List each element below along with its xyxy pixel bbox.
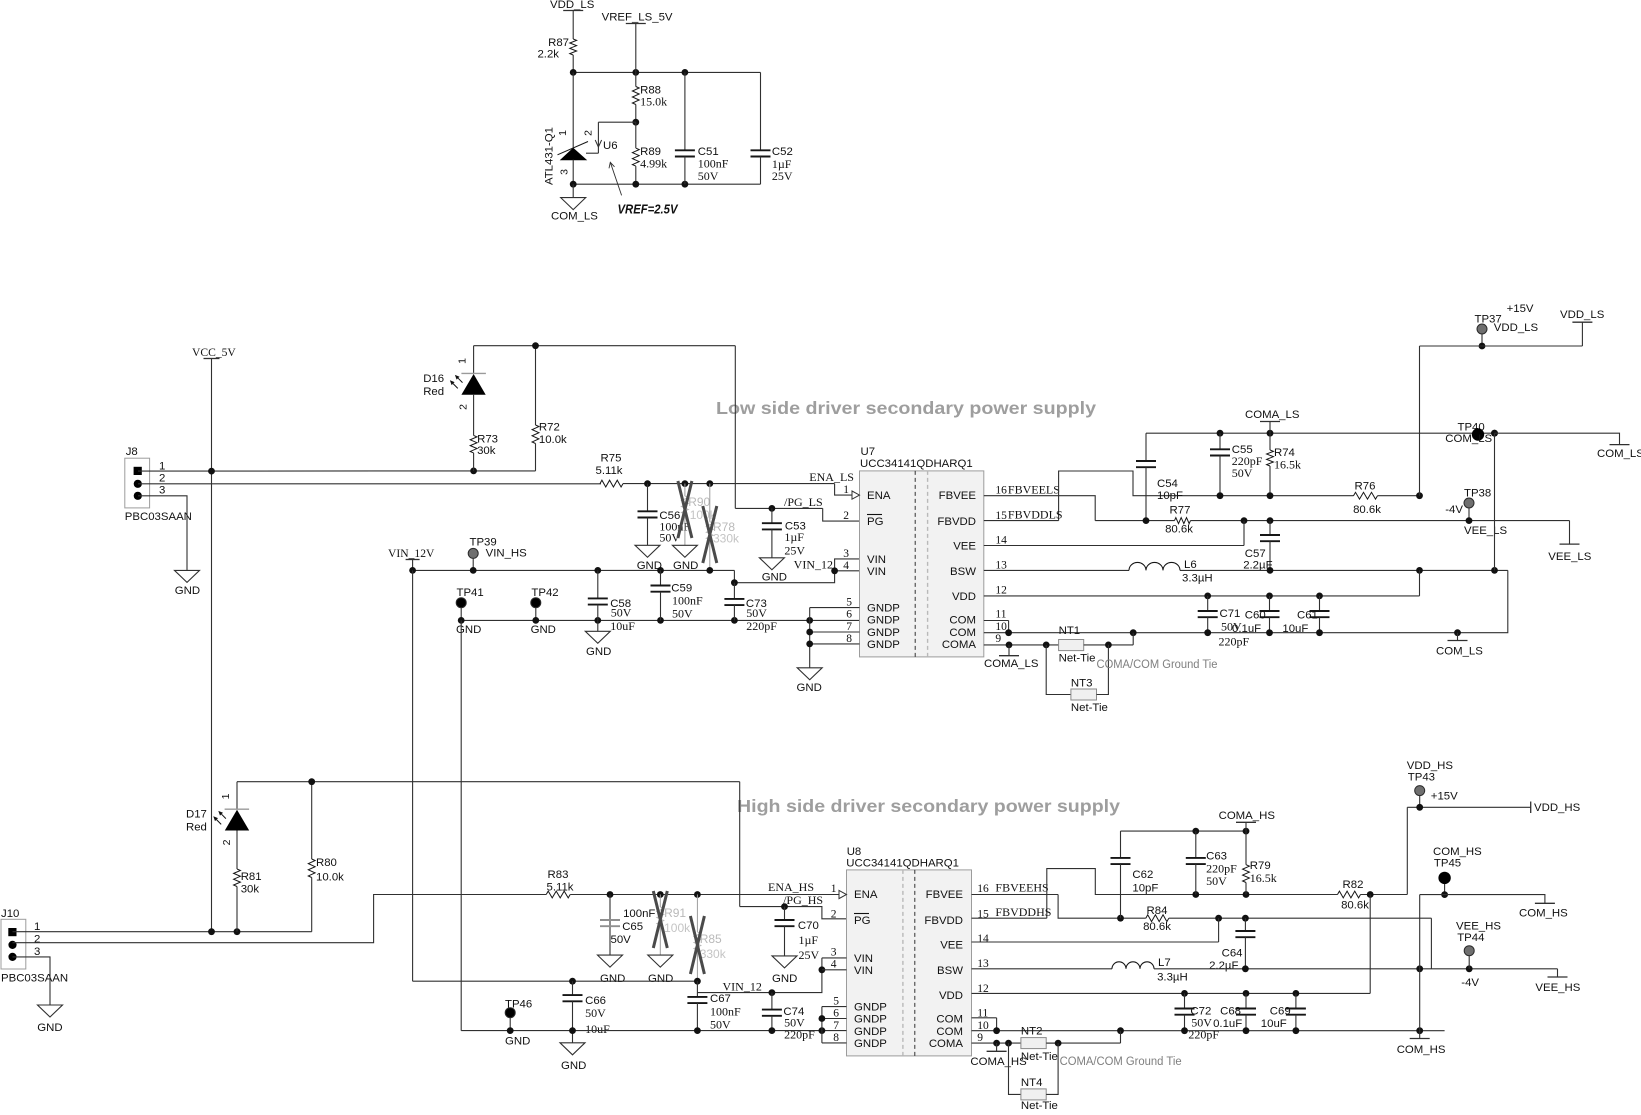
svg-text:7: 7 xyxy=(846,621,852,633)
svg-text:C68: C68 xyxy=(1220,1006,1241,1018)
svg-text:50V: 50V xyxy=(710,1018,731,1032)
svg-text:R72: R72 xyxy=(539,422,560,434)
testpoint TP38 -4V VEE_LS xyxy=(1445,488,1507,537)
wire COM vertical TP40 to BSW rail xyxy=(1494,433,1496,570)
ground GND (C58) xyxy=(585,620,611,658)
svg-text:COMA/COM Ground Tie: COMA/COM Ground Tie xyxy=(1097,657,1218,671)
wire J10 pin1 (VCC_5V) xyxy=(13,928,312,935)
svg-text:100nF: 100nF xyxy=(710,1005,741,1019)
resistor R80 xyxy=(308,782,344,932)
capacitor C58 xyxy=(588,570,635,632)
svg-text:COM: COM xyxy=(936,1026,963,1038)
svg-text:4.99k: 4.99k xyxy=(640,157,667,171)
svg-text:2: 2 xyxy=(843,510,849,522)
svg-text:-4V: -4V xyxy=(1461,977,1479,989)
svg-text:VEE_LS: VEE_LS xyxy=(1464,525,1507,537)
wire ENA_HS junctions xyxy=(607,891,701,898)
svg-text:C67: C67 xyxy=(710,993,731,1005)
svg-text:C65: C65 xyxy=(622,921,643,933)
svg-text:Red: Red xyxy=(186,822,207,834)
power flag COMA_HS (top) xyxy=(1219,810,1276,831)
capacitor C70 xyxy=(775,907,820,962)
svg-text:Net-Tie: Net-Tie xyxy=(1021,1100,1058,1110)
wire VCC_5V vertical to J10 xyxy=(211,471,213,932)
svg-text:1: 1 xyxy=(220,793,232,799)
capacitor C57 xyxy=(1243,521,1280,572)
svg-text:2: 2 xyxy=(159,472,165,484)
wire FBVDD rail junctions xyxy=(1217,492,1274,499)
svg-text:3: 3 xyxy=(34,946,40,958)
wire FBVEELS pin16 with jog xyxy=(984,496,1095,521)
svg-text:VIN: VIN xyxy=(867,566,886,578)
power flag VDD_LS (top) xyxy=(550,0,595,39)
svg-text:TP41: TP41 xyxy=(457,587,484,599)
svg-text:6: 6 xyxy=(833,1008,839,1020)
svg-text:3: 3 xyxy=(559,169,571,175)
wire VIN_12V rail (LS) xyxy=(409,559,859,586)
svg-text:+15V: +15V xyxy=(1507,303,1534,315)
svg-text:16.5k: 16.5k xyxy=(1250,871,1277,885)
svg-text:NT2: NT2 xyxy=(1021,1026,1043,1038)
svg-text:Net-Tie: Net-Tie xyxy=(1059,653,1096,665)
resistor R85 330k (DNP crossed out) xyxy=(690,895,726,982)
svg-text:COMA_HS: COMA_HS xyxy=(1219,810,1276,822)
svg-text:3: 3 xyxy=(831,947,837,959)
svg-text:GNDP: GNDP xyxy=(867,627,900,639)
ground GND (R91) xyxy=(648,955,674,985)
wire COMA pin9 xyxy=(984,642,1059,649)
svg-text:16: 16 xyxy=(995,485,1007,497)
wire VDD rail (HS) xyxy=(972,895,1371,997)
wire VDD_LS vertical xyxy=(1419,346,1421,496)
net tie NT4 xyxy=(1009,1043,1059,1112)
wire U7 GNDP pins to GND xyxy=(806,608,859,668)
wire VDD rail (LS) xyxy=(984,593,1420,600)
svg-text:COM_HS: COM_HS xyxy=(1397,1044,1446,1056)
inductor L6 xyxy=(984,559,1508,585)
svg-text:GND: GND xyxy=(456,624,481,636)
ground GND (C53) xyxy=(759,558,787,584)
capacitor C62 xyxy=(1111,831,1159,918)
svg-text:C61: C61 xyxy=(1297,610,1318,622)
svg-text:COM_LS: COM_LS xyxy=(551,211,598,223)
svg-text:220pF: 220pF xyxy=(1219,635,1250,649)
capacitor C64 xyxy=(1209,918,1255,972)
svg-text:80.6k: 80.6k xyxy=(1353,504,1381,516)
wire TP40 to COM_LS flag (right) xyxy=(1495,433,1620,444)
svg-text:GND: GND xyxy=(37,1022,62,1034)
capacitor C67 xyxy=(687,993,741,1032)
wire COMA_LS top rail xyxy=(1146,430,1498,437)
svg-text:R90: R90 xyxy=(688,495,710,509)
svg-text:3.3µH: 3.3µH xyxy=(1182,573,1213,585)
svg-text:330k: 330k xyxy=(713,532,740,546)
capacitor C55 xyxy=(1210,433,1263,496)
svg-text:10pF: 10pF xyxy=(1157,490,1183,502)
wire VIN rail (HS) xyxy=(413,978,701,997)
svg-text:ENA: ENA xyxy=(854,889,878,901)
svg-text:10.0k: 10.0k xyxy=(539,434,567,446)
svg-text:R76: R76 xyxy=(1355,481,1376,493)
ground GND (J8) xyxy=(175,570,201,597)
svg-text:C70: C70 xyxy=(798,920,819,932)
wire VEE pin14 riser xyxy=(984,521,1244,546)
svg-text:1µF: 1µF xyxy=(799,933,819,947)
svg-text:FBVDDLS: FBVDDLS xyxy=(1008,508,1063,522)
resistor R74 xyxy=(1267,433,1301,496)
wire GND rail (LS) xyxy=(458,617,860,624)
wire GND rail (HS) xyxy=(461,1027,846,1034)
svg-text:5: 5 xyxy=(846,597,852,609)
svg-text:GND: GND xyxy=(648,973,673,985)
svg-text:50V: 50V xyxy=(1232,466,1253,480)
svg-text:VEE_HS: VEE_HS xyxy=(1535,982,1580,994)
svg-text:VIN: VIN xyxy=(854,965,873,977)
wire TP41 vertical to HS section xyxy=(460,620,462,1030)
svg-text:50V: 50V xyxy=(611,934,632,946)
svg-text:C59: C59 xyxy=(671,582,692,594)
power flag VDD_HS (right) xyxy=(1531,802,1581,815)
svg-text:GND: GND xyxy=(175,585,200,597)
svg-text:ENA: ENA xyxy=(867,490,891,502)
svg-text:FBVEEHS: FBVEEHS xyxy=(995,881,1048,895)
svg-text:UCC34141QDHARQ1: UCC34141QDHARQ1 xyxy=(846,857,959,869)
resistor R72 xyxy=(532,346,567,471)
net tie NT3 xyxy=(1046,645,1108,714)
svg-text:R84: R84 xyxy=(1147,905,1168,917)
svg-text:9: 9 xyxy=(977,1032,983,1044)
power flag COMA_HS (pin9) xyxy=(970,1043,1027,1068)
testpoint TP37 +15V VDD_LS xyxy=(1475,303,1539,349)
svg-text:10uF: 10uF xyxy=(1261,1018,1287,1030)
svg-text:2: 2 xyxy=(34,933,40,945)
ground GND (J10) xyxy=(37,1005,62,1034)
capacitor C72 xyxy=(1175,993,1220,1041)
svg-text:GND: GND xyxy=(600,973,625,985)
svg-text:25V: 25V xyxy=(772,169,793,183)
svg-text:16.5k: 16.5k xyxy=(1274,458,1301,472)
wire J8 pin3 to GND xyxy=(138,496,187,571)
wire U8 GNDP pins riser xyxy=(819,1007,847,1043)
svg-text:COM: COM xyxy=(936,1014,963,1026)
wire FBVDDLS pin15 up-and-over xyxy=(984,471,1354,521)
svg-text:80.6k: 80.6k xyxy=(1165,524,1193,536)
svg-text:VEE_HS: VEE_HS xyxy=(1456,921,1501,933)
resistor R81 xyxy=(234,869,262,932)
svg-text:COM_LS: COM_LS xyxy=(1445,433,1492,445)
testpoint TP41 xyxy=(456,587,484,636)
svg-text:9: 9 xyxy=(995,633,1001,645)
svg-text:COM_LS: COM_LS xyxy=(1436,646,1483,658)
svg-text:FBVDD: FBVDD xyxy=(937,516,976,528)
svg-text:VIN: VIN xyxy=(867,554,886,566)
svg-text:PBC03SAAN: PBC03SAAN xyxy=(125,511,192,523)
svg-text:GND: GND xyxy=(772,973,797,985)
capacitor C68 xyxy=(1213,993,1256,1030)
svg-text:VDD_LS: VDD_LS xyxy=(1494,322,1539,334)
svg-text:+15V: +15V xyxy=(1431,791,1458,803)
power flag COM_HS (right) xyxy=(1519,903,1568,919)
svg-text:2: 2 xyxy=(583,130,595,136)
svg-text:VIN: VIN xyxy=(854,953,873,965)
svg-text:R87: R87 xyxy=(548,37,569,49)
svg-text:NT1: NT1 xyxy=(1059,625,1081,637)
svg-text:11: 11 xyxy=(995,609,1006,621)
resistor R73 xyxy=(470,433,498,471)
svg-text:R85: R85 xyxy=(700,932,722,946)
svg-text:VDD: VDD xyxy=(952,591,976,603)
power flag COMA_LS (top) xyxy=(1245,409,1300,433)
svg-text:10.0k: 10.0k xyxy=(316,872,344,884)
testpoint TP45 COM_HS xyxy=(1433,846,1482,898)
svg-text:50V: 50V xyxy=(698,169,719,183)
svg-text:D17: D17 xyxy=(186,808,207,820)
svg-text:VREF_LS_5V: VREF_LS_5V xyxy=(602,12,673,24)
svg-text:VIN_12: VIN_12 xyxy=(794,558,833,572)
svg-text:L7: L7 xyxy=(1158,957,1171,969)
svg-text:GND: GND xyxy=(561,1060,586,1072)
svg-text:80.6k: 80.6k xyxy=(1143,921,1171,933)
svg-text:GND: GND xyxy=(586,646,611,658)
svg-text:FBVDDHS: FBVDDHS xyxy=(995,905,1051,919)
wire VREF bottom rail xyxy=(570,181,761,188)
svg-text:J8: J8 xyxy=(126,446,138,458)
svg-text:16: 16 xyxy=(977,883,989,895)
wire VEE_LS line with TP38 xyxy=(1241,517,1570,544)
svg-text:FBVEE: FBVEE xyxy=(939,490,977,502)
svg-text:Net-Tie: Net-Tie xyxy=(1021,1051,1058,1063)
svg-text:1: 1 xyxy=(831,883,837,895)
svg-text:U7: U7 xyxy=(861,446,876,458)
svg-text:GNDP: GNDP xyxy=(854,1014,887,1026)
svg-text:L6: L6 xyxy=(1184,559,1197,571)
capacitor C51 xyxy=(675,72,729,184)
svg-text:GNDP: GNDP xyxy=(867,603,900,615)
capacitor C60 xyxy=(1232,596,1280,635)
svg-text:GNDP: GNDP xyxy=(867,615,900,627)
resistor R79 xyxy=(1243,831,1277,894)
testpoint TP46 xyxy=(505,999,532,1048)
wire VDD rail to flag xyxy=(1420,322,1583,346)
power flag COM_LS (bottom rail) xyxy=(1436,633,1483,658)
svg-text:High side driver secondary pow: High side driver secondary power supply xyxy=(737,796,1120,816)
wire BSW rail corner to COM rail xyxy=(1458,570,1508,632)
svg-text:GNDP: GNDP xyxy=(854,1038,887,1050)
svg-text:10pF: 10pF xyxy=(1132,883,1158,895)
wire FBVDDHS pin15 up-and-over xyxy=(972,869,1338,919)
resistor R75 xyxy=(595,453,834,488)
wire VIN_12V vertical to HS section xyxy=(412,570,414,981)
svg-text:R91: R91 xyxy=(664,906,686,920)
ground GND (C66) xyxy=(560,1031,586,1072)
wire TP45 line to COM_HS flag xyxy=(1420,895,1545,904)
resistor R90 100k (DNP crossed out) xyxy=(678,481,717,545)
svg-text:GNDP: GNDP xyxy=(854,1026,887,1038)
svg-text:GND: GND xyxy=(797,682,822,694)
capacitor C52 xyxy=(751,72,793,184)
resistor R77 xyxy=(1095,505,1469,536)
svg-text:50V: 50V xyxy=(1206,874,1227,888)
wire /PG_LS into U7 pin2 xyxy=(735,505,859,521)
svg-text:220pF: 220pF xyxy=(784,1028,815,1042)
svg-text:COM: COM xyxy=(949,627,976,639)
svg-text:5: 5 xyxy=(833,996,839,1008)
wire D17 anode rail to PG pulldown (HS) xyxy=(237,778,740,906)
resistor R82 xyxy=(1338,879,1408,912)
svg-text:FBVDD: FBVDD xyxy=(924,915,963,927)
svg-text:25V: 25V xyxy=(784,544,805,558)
svg-text:3: 3 xyxy=(159,485,165,497)
svg-text:D16: D16 xyxy=(423,373,444,385)
svg-text:C57: C57 xyxy=(1245,548,1266,560)
svg-text:50V: 50V xyxy=(585,1006,606,1020)
connector J8 PBC03SAAN xyxy=(125,446,192,523)
svg-text:1: 1 xyxy=(557,130,569,136)
net tie NT2 xyxy=(1021,1026,1121,1064)
svg-text:ENA_LS: ENA_LS xyxy=(809,470,854,484)
svg-text:15.0k: 15.0k xyxy=(640,95,667,109)
shunt reference U6 ATL431-Q1 xyxy=(544,72,618,185)
svg-text:GND: GND xyxy=(531,624,556,636)
svg-text:220pF: 220pF xyxy=(746,619,777,633)
svg-text:VEE: VEE xyxy=(953,541,976,553)
svg-text:12: 12 xyxy=(995,585,1007,597)
wire VEE pin14 riser (HS) xyxy=(972,918,1219,942)
svg-text:50V: 50V xyxy=(672,607,693,621)
svg-text:BSW: BSW xyxy=(937,965,963,977)
capacitor C69 xyxy=(1261,993,1306,1030)
resistor R78 330k (DNP crossed out) xyxy=(703,484,740,571)
svg-text:U6: U6 xyxy=(603,140,618,152)
net tie NT1 xyxy=(1059,625,1134,665)
node REF (R88/R89 junction to U6 pin2) xyxy=(586,119,639,153)
svg-text:J10: J10 xyxy=(1,908,19,920)
IC U7 UCC34141QDHARQ1 xyxy=(843,446,1007,657)
svg-text:4: 4 xyxy=(843,560,849,572)
capacitor C56 xyxy=(638,484,691,546)
svg-text:10uF: 10uF xyxy=(610,619,635,633)
resistor R76 xyxy=(1353,481,1423,516)
resistor R83 xyxy=(546,869,846,898)
svg-text:50V: 50V xyxy=(611,606,632,620)
capacitor C74 xyxy=(762,993,815,1042)
svg-text:13: 13 xyxy=(995,560,1007,572)
svg-text:1µF: 1µF xyxy=(784,530,804,544)
wire ENA_LS into U7 pin1 xyxy=(644,480,852,495)
resistor R91 100k (DNP crossed out) xyxy=(653,891,691,955)
svg-text:R75: R75 xyxy=(601,453,622,465)
capacitor C63 xyxy=(1186,831,1237,894)
resistor R87 xyxy=(537,37,576,61)
power flag VEE_LS (right) xyxy=(1548,544,1591,563)
svg-text:VCC_5V: VCC_5V xyxy=(192,346,236,359)
svg-text:VREF=2.5V: VREF=2.5V xyxy=(618,203,679,217)
svg-text:13: 13 xyxy=(977,958,989,970)
wire J10 pin2 to R83 xyxy=(13,895,547,943)
capacitor C73 xyxy=(724,583,777,633)
testpoint TP42 xyxy=(531,587,559,636)
power flag COM_LS (right edge) xyxy=(1597,445,1641,460)
svg-text:UCC34141QDHARQ1: UCC34141QDHARQ1 xyxy=(860,458,973,470)
wire COM rail (HS) xyxy=(972,1018,1445,1034)
svg-text:Net-Tie: Net-Tie xyxy=(1071,702,1108,714)
ground COM_LS (VREF) xyxy=(551,184,598,222)
svg-text:FBVEELS: FBVEELS xyxy=(1008,483,1060,497)
svg-text:2.2µF: 2.2µF xyxy=(1209,960,1238,972)
testpoint TP43 +15V VDD_HS xyxy=(1407,760,1458,811)
wire COMA_HS top rail xyxy=(1121,828,1250,835)
svg-text:C62: C62 xyxy=(1132,869,1153,881)
svg-text:ATL431-Q1: ATL431-Q1 xyxy=(544,127,556,185)
ground GND (C65) xyxy=(598,955,626,985)
svg-text:3: 3 xyxy=(843,548,849,560)
svg-text:C71: C71 xyxy=(1220,608,1241,620)
resistor R88 xyxy=(632,72,667,122)
svg-text:VDD_LS: VDD_LS xyxy=(1560,309,1605,321)
note VREF=2.5V with leader arrow xyxy=(609,162,679,216)
svg-text:COM: COM xyxy=(949,615,976,627)
svg-text:COMA_LS: COMA_LS xyxy=(984,658,1039,670)
svg-text:TP44: TP44 xyxy=(1457,932,1484,944)
svg-text:VDD_LS: VDD_LS xyxy=(550,0,595,11)
svg-text:30k: 30k xyxy=(241,884,260,896)
svg-text:TP42: TP42 xyxy=(531,587,558,599)
svg-text:R81: R81 xyxy=(241,871,262,883)
inductor L7 xyxy=(972,957,1558,984)
power flag VCC_5V xyxy=(192,346,236,471)
svg-text:R77: R77 xyxy=(1170,505,1191,517)
wire riser VDD rail to BSW rail xyxy=(1419,570,1421,596)
svg-text:330k: 330k xyxy=(700,947,727,961)
wire FBVEE drop to VEE_HS line xyxy=(1430,918,1432,969)
svg-text:U8: U8 xyxy=(847,846,862,858)
wire /PG_HS into U8 pin2 xyxy=(740,903,847,919)
power flag VIN_12V xyxy=(388,547,435,570)
svg-text:VIN_HS: VIN_HS xyxy=(486,547,528,559)
svg-text:5.11k: 5.11k xyxy=(546,882,573,894)
svg-text:0.1uF: 0.1uF xyxy=(1213,1018,1242,1030)
svg-text:4: 4 xyxy=(831,959,837,971)
svg-text:NT3: NT3 xyxy=(1071,677,1093,689)
capacitor C53 xyxy=(762,508,806,557)
svg-text:2: 2 xyxy=(831,909,837,921)
svg-text:NT4: NT4 xyxy=(1021,1077,1043,1089)
svg-text:8: 8 xyxy=(846,633,852,645)
power flag VEE_HS (right) xyxy=(1535,969,1580,994)
svg-text:COMA: COMA xyxy=(929,1038,964,1050)
svg-text:COM_LS: COM_LS xyxy=(1597,448,1641,460)
svg-text:80.6k: 80.6k xyxy=(1341,900,1369,912)
svg-text:VIN_12: VIN_12 xyxy=(723,979,762,993)
power flag COM_HS (bottom) xyxy=(1397,1031,1446,1056)
svg-text:5.11k: 5.11k xyxy=(595,465,622,477)
svg-text:1: 1 xyxy=(843,484,849,496)
wire COMA pin9 (HS) xyxy=(972,1040,1059,1047)
svg-text:BSW: BSW xyxy=(950,566,976,578)
svg-text:C69: C69 xyxy=(1270,1006,1291,1018)
svg-text:VIN_12V: VIN_12V xyxy=(388,547,435,560)
svg-text:C60: C60 xyxy=(1245,610,1266,622)
wire J10 pin3 to GND xyxy=(13,957,51,1005)
power flag VREF_LS_5V xyxy=(602,12,673,73)
ground GND (U7 GNDP) xyxy=(797,668,823,694)
connector J10 PBC03SAAN xyxy=(1,908,68,985)
svg-text:C64: C64 xyxy=(1222,948,1243,960)
wire FBVEEHS pin16 with jog xyxy=(972,895,1146,922)
svg-text:10uF: 10uF xyxy=(585,1022,610,1036)
svg-text:8: 8 xyxy=(833,1032,839,1044)
IC U8 UCC34141QDHARQ1 xyxy=(831,846,989,1056)
